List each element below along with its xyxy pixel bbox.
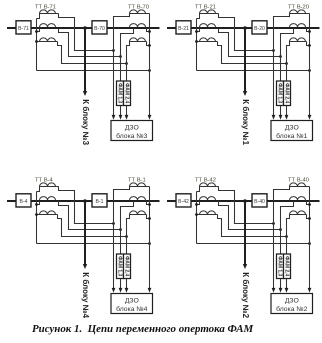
junction run4 [148,242,151,245]
wire left feeder jog top [197,14,200,19]
svg-text:К блоку №3: К блоку №3 [81,99,90,145]
junction left feeder mid [195,30,198,33]
filter ФАМ 1,3 [277,81,284,106]
wire right group phase B drop [281,201,294,291]
wire run3 from phase C [218,215,287,237]
svg-text:В-21: В-21 [178,26,189,32]
junction right vertical mid [148,203,151,206]
junction right vertical bottom [148,217,151,220]
CT ТТ В-71 phase A winding [40,10,59,14]
wire left feeder vertical [36,19,38,71]
wire run4 feeder bottom [197,243,310,245]
CT ТТ В-70 phase A winding [130,10,150,14]
wire run4 feeder bottom [37,70,150,72]
wire left feeder jog top [197,187,200,192]
junction left feeder bottom [35,213,38,216]
wire run2 from phase B [59,28,121,57]
wire left feeder jog top [37,14,40,19]
svg-text:ТТ В-40: ТТ В-40 [288,177,309,183]
wire right group phase B drop [121,201,134,291]
svg-text:блока №4: блока №4 [116,305,147,313]
wire right mid elbow [307,201,310,205]
junction run1 [272,222,275,225]
svg-text:В-20: В-20 [254,26,265,32]
wire right bottom elbow [147,42,150,46]
wire run1 from phase A [219,14,274,51]
wire run3 from phase C [218,42,287,64]
svg-text:ФАМ 1,3: ФАМ 1,3 [117,83,123,103]
wire right mid elbow [147,201,150,205]
breaker В-42 [176,194,191,207]
wire main bus [167,200,320,202]
svg-text:В-70: В-70 [94,26,105,32]
arrow into ДЗО 2 [119,115,123,120]
wire right mid elbow [307,28,310,32]
junction left feeder bottom [195,40,198,43]
svg-text:ФАМ 2,4: ФАМ 2,4 [284,256,290,276]
CT ТТ В-42 phase B winding [200,197,216,201]
wire right bottom elbow [147,215,150,219]
filter ФАМ 2,4 [284,254,291,279]
svg-text:ТТ В-71: ТТ В-71 [35,4,56,10]
wire run3 from phase C [58,42,127,64]
wire left feeder vertical [36,192,38,244]
svg-text:ФАМ 1,3: ФАМ 1,3 [277,83,283,103]
wire to block 2 [244,201,246,265]
CT ТТ В-21 phase B winding [200,24,216,28]
junction right vertical bottom [308,217,311,220]
breaker В-4 [16,194,31,207]
filter ФАМ 1,3 [277,254,284,279]
wire right group phase B drop [121,28,134,118]
wire run2 from phase B [219,201,281,230]
junction bus tap [243,26,247,30]
wire right group phase B drop [281,28,294,118]
arrow into ДЗО 3 [285,288,289,293]
wire right mid elbow [147,28,150,32]
svg-text:блока №3: блока №3 [116,132,147,140]
junction bus tap [83,26,87,30]
breaker В-20 [252,21,267,34]
CT ТТ В-1 phase B winding [130,197,146,201]
junction left feeder mid [35,203,38,206]
arrow to block 2 [243,264,247,269]
junction run2 [279,55,282,58]
junction left feeder bottom [35,40,38,43]
junction left feeder mid [35,30,38,33]
wire left mid elbow [37,201,40,205]
svg-text:В-42: В-42 [178,199,189,205]
wire right bottom elbow [307,42,310,46]
arrow into ДЗО 4 [148,115,152,120]
arrow into ДЗО 3 [285,115,289,120]
svg-text:ДЗО: ДЗО [285,298,299,305]
CT ТТ В-42 phase C winding [197,211,218,215]
CT ТТ В-1 phase A winding [130,183,150,187]
svg-text:ТТ В-1: ТТ В-1 [128,177,146,183]
wire run1 from phase A [59,14,114,51]
wire left feeder jog top [37,187,40,192]
junction right vertical bottom [148,44,151,47]
arrow into ДЗО 1 [112,115,116,120]
CT ТТ В-20 phase B winding [290,24,306,28]
junction bus tap [243,199,247,203]
filter ФАМ 1,3 [117,81,124,106]
wire right common vertical [309,187,311,291]
junction run1 [272,49,275,52]
wire right common vertical [309,14,311,118]
junction run4 [148,69,151,72]
svg-text:ТТ В-21: ТТ В-21 [195,4,216,10]
arrow into ДЗО 1 [272,115,276,120]
CT ТТ В-71 phase B winding [40,24,56,28]
wire right group phase A drop [114,14,130,118]
CT ТТ В-4 phase C winding [37,211,58,215]
wire right common vertical [149,14,151,118]
junction run3 [125,62,128,65]
CT ТТ В-20 phase C winding [290,38,307,42]
wire right group phase C drop [287,215,290,291]
junction bus tap [83,199,87,203]
svg-text:В-71: В-71 [18,26,29,32]
wire left mid elbow [37,28,40,32]
wire run3 from phase C [58,215,127,237]
breaker В-71 [16,21,31,34]
svg-text:ДЗО: ДЗО [125,125,139,132]
svg-text:блока №2: блока №2 [276,305,307,313]
arrow into ДЗО 1 [112,288,116,293]
junction right vertical mid [308,203,311,206]
svg-text:ДЗО: ДЗО [285,125,299,132]
CT ТТ В-4 phase B winding [40,197,56,201]
junction run4 [308,242,311,245]
CT ТТ В-40 phase C winding [290,211,307,215]
junction run1 [112,222,115,225]
wire to block 3 [84,28,86,92]
filter ФАМ 2,4 [124,81,131,106]
breaker В-1 [92,194,107,207]
arrow into ДЗО 2 [279,115,283,120]
arrow to block 1 [243,91,247,96]
junction run1 [112,49,115,52]
junction left feeder bottom [195,213,198,216]
svg-text:ФАМ 2,4: ФАМ 2,4 [124,83,130,103]
svg-text:блока №1: блока №1 [276,132,307,140]
wire run4 feeder bottom [37,243,150,245]
arrow into ДЗО 4 [308,115,312,120]
wire right group phase A drop [274,14,290,118]
arrow to block 3 [83,91,87,96]
arrow into ДЗО 1 [272,288,276,293]
arrow into ДЗО 4 [308,288,312,293]
relay ДЗО блока №2 [271,294,313,314]
arrow into ДЗО 4 [148,288,152,293]
junction right vertical mid [148,30,151,33]
CT ТТ В-71 phase C winding [37,38,58,42]
wire run4 feeder bottom [197,70,310,72]
svg-text:ТТ В-42: ТТ В-42 [195,177,216,183]
CT ТТ В-1 phase C winding [130,211,147,215]
wire main bus [7,27,160,29]
svg-text:В-40: В-40 [254,199,265,205]
filter ФАМ 2,4 [124,254,131,279]
relay ДЗО блока №1 [271,121,313,141]
junction right vertical bottom [308,44,311,47]
wire right group phase C drop [127,215,130,291]
junction run3 [285,235,288,238]
CT ТТ В-20 phase A winding [290,10,310,14]
junction run4 [308,69,311,72]
wire run1 from phase A [59,187,114,224]
breaker В-70 [92,21,107,34]
wire run1 from phase A [219,187,274,224]
wire right group phase C drop [127,42,130,118]
wire main bus [7,200,160,202]
CT ТТ В-70 phase C winding [130,38,147,42]
wire run2 from phase B [59,201,121,230]
arrow into ДЗО 2 [279,288,283,293]
junction run2 [279,228,282,231]
svg-text:ФАМ 1,3: ФАМ 1,3 [117,256,123,276]
svg-text:В-4: В-4 [20,199,28,205]
CT ТТ В-21 phase A winding [200,10,219,14]
wire left mid elbow [197,201,200,205]
wire left mid elbow [197,28,200,32]
junction run3 [285,62,288,65]
svg-text:К блоку №1: К блоку №1 [241,99,250,145]
svg-text:ФАМ 2,4: ФАМ 2,4 [124,256,130,276]
CT ТТ В-21 phase C winding [197,38,218,42]
wire main bus [167,27,320,29]
CT ТТ В-4 phase A winding [40,183,59,187]
arrow to block 4 [83,264,87,269]
relay ДЗО блока №4 [111,294,153,314]
arrow into ДЗО 3 [125,288,129,293]
wire to block 4 [84,201,86,265]
wire right group phase C drop [287,42,290,118]
svg-text:ТТ В-70: ТТ В-70 [128,4,149,10]
wire to block 1 [244,28,246,92]
junction run2 [119,55,122,58]
arrow into ДЗО 3 [125,115,129,120]
filter ФАМ 1,3 [117,254,124,279]
junction right vertical mid [308,30,311,33]
junction run2 [119,228,122,231]
wire right bottom elbow [307,215,310,219]
wire right common vertical [149,187,151,291]
wire right group phase A drop [274,187,290,291]
breaker В-21 [176,21,191,34]
svg-text:Рисунок 1. Цепи переменного о: Рисунок 1. Цепи переменного опертока ФАМ [32,323,254,335]
svg-text:ФАМ 1,3: ФАМ 1,3 [277,256,283,276]
svg-text:К блоку №4: К блоку №4 [81,272,90,318]
svg-text:К блоку №2: К блоку №2 [241,272,250,318]
junction left feeder mid [195,203,198,206]
breaker В-40 [252,194,267,207]
CT ТТ В-40 phase A winding [290,183,310,187]
wire left feeder vertical [196,192,198,244]
wire right group phase A drop [114,187,130,291]
CT ТТ В-40 phase B winding [290,197,306,201]
CT ТТ В-70 phase B winding [130,24,146,28]
svg-text:ДЗО: ДЗО [125,298,139,305]
CT ТТ В-42 phase A winding [200,183,219,187]
svg-text:В-1: В-1 [96,199,104,205]
svg-text:ФАМ 2,4: ФАМ 2,4 [284,83,290,103]
junction run3 [125,235,128,238]
filter ФАМ 2,4 [284,81,291,106]
svg-text:ТТ В-20: ТТ В-20 [288,4,309,10]
wire left feeder vertical [196,19,198,71]
relay ДЗО блока №3 [111,121,153,141]
wire run2 from phase B [219,28,281,57]
arrow into ДЗО 2 [119,288,123,293]
